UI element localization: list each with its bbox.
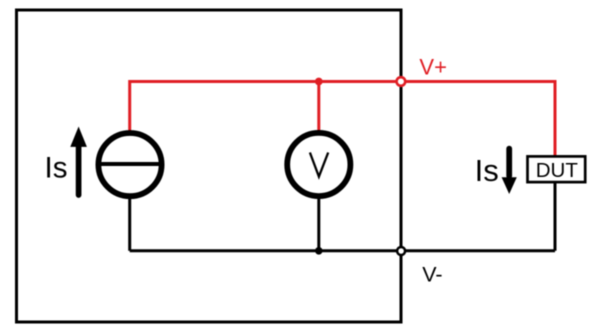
- junction dot on bottom rail: [315, 247, 323, 255]
- arrow Is up (left): [70, 127, 87, 196]
- wire: red voltmeter top stub: [317, 82, 320, 135]
- wire: black bottom rail from current source to DUT riser: [130, 249, 555, 252]
- svg-text:DUT: DUT: [536, 159, 579, 182]
- wire: DUT bottom riser: [554, 182, 557, 251]
- DUT box: [528, 156, 586, 182]
- current source I1 (circle): [98, 133, 161, 196]
- svg-text:Is: Is: [475, 153, 499, 188]
- voltmeter letter V: [310, 153, 328, 177]
- voltmeter V1 (circle): [287, 133, 350, 196]
- svg-text:Is: Is: [45, 151, 68, 184]
- current source horizontal bar: [99, 162, 161, 166]
- instrument enclosure box: [17, 10, 402, 322]
- wire: current source bottom stub: [128, 196, 131, 251]
- wire: red V+ rail with current-source riser and DUT riser: [130, 82, 555, 157]
- terminal V+ (open circle on enclosure edge): [397, 77, 406, 86]
- junction dot on red V+ rail: [315, 78, 323, 86]
- svg-text:V-: V-: [422, 263, 442, 287]
- arrow Is down (right, into DUT): [502, 149, 517, 194]
- wire: voltmeter bottom stub: [317, 196, 320, 251]
- svg-text:V+: V+: [419, 55, 447, 80]
- terminal V- (open circle on enclosure edge): [397, 247, 405, 255]
